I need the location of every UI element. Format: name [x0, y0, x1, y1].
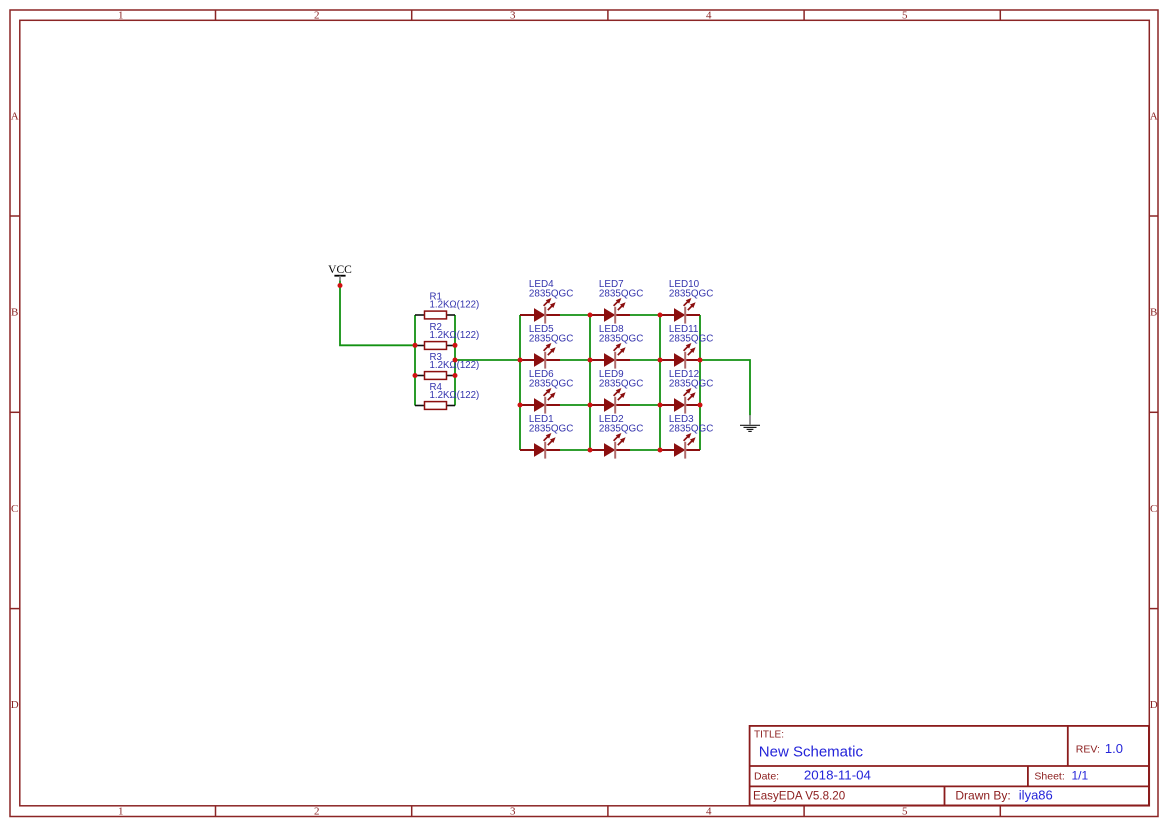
svg-text:2835QGC: 2835QGC	[529, 289, 573, 300]
svg-text:1: 1	[118, 9, 124, 21]
svg-text:A: A	[1150, 110, 1158, 122]
svg-text:4: 4	[706, 9, 712, 21]
svg-text:3: 3	[510, 9, 516, 21]
svg-text:3: 3	[510, 806, 516, 818]
svg-text:B: B	[11, 307, 18, 319]
svg-text:1.2KΩ(122): 1.2KΩ(122)	[430, 390, 480, 401]
svg-text:2835QGC: 2835QGC	[669, 424, 713, 435]
svg-text:2835QGC: 2835QGC	[599, 424, 643, 435]
svg-text:New Schematic: New Schematic	[759, 744, 864, 761]
svg-text:1.2KΩ(122): 1.2KΩ(122)	[430, 299, 480, 310]
svg-text:TITLE:: TITLE:	[754, 730, 784, 741]
svg-text:C: C	[11, 503, 18, 515]
svg-text:2835QGC: 2835QGC	[529, 334, 573, 345]
svg-text:5: 5	[902, 9, 908, 21]
svg-text:B: B	[1150, 307, 1157, 319]
svg-text:2835QGC: 2835QGC	[599, 334, 643, 345]
svg-text:D: D	[11, 699, 19, 711]
svg-text:2835QGC: 2835QGC	[669, 379, 713, 390]
svg-text:A: A	[11, 110, 19, 122]
svg-text:Drawn By:: Drawn By:	[955, 788, 1010, 802]
svg-text:2: 2	[314, 806, 320, 818]
svg-text:C: C	[1150, 503, 1157, 515]
svg-text:2: 2	[314, 9, 320, 21]
svg-text:2835QGC: 2835QGC	[529, 379, 573, 390]
svg-text:2835QGC: 2835QGC	[599, 289, 643, 300]
svg-text:1/1: 1/1	[1072, 769, 1089, 783]
svg-text:2835QGC: 2835QGC	[669, 289, 713, 300]
svg-text:1: 1	[118, 806, 124, 818]
svg-text:D: D	[1150, 699, 1158, 711]
svg-text:2835QGC: 2835QGC	[529, 424, 573, 435]
svg-text:4: 4	[706, 806, 712, 818]
svg-text:1.0: 1.0	[1105, 741, 1123, 756]
svg-text:VCC: VCC	[328, 264, 352, 276]
svg-text:EasyEDA V5.8.20: EasyEDA V5.8.20	[753, 790, 845, 803]
svg-text:REV:: REV:	[1076, 743, 1100, 755]
svg-text:Sheet:: Sheet:	[1034, 770, 1064, 782]
svg-text:Date:: Date:	[754, 771, 779, 783]
svg-text:2018-11-04: 2018-11-04	[804, 768, 871, 783]
svg-text:5: 5	[902, 806, 908, 818]
svg-text:2835QGC: 2835QGC	[669, 334, 713, 345]
svg-text:1.2KΩ(122): 1.2KΩ(122)	[430, 330, 480, 341]
svg-text:ilya86: ilya86	[1019, 788, 1053, 803]
svg-text:2835QGC: 2835QGC	[599, 379, 643, 390]
